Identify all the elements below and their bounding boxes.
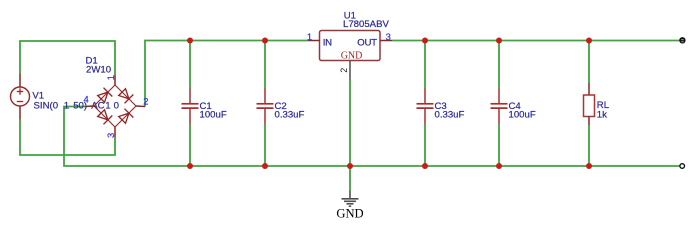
svg-text:SIN(0: SIN(0 [34, 101, 59, 112]
capacitor C4 [491, 88, 508, 125]
wire C1 top drop [189, 41, 191, 88]
capacitor C1 [182, 88, 199, 125]
pin 3 lead [114, 127, 116, 138]
wire bridge pin4 down to bottom rail [64, 107, 680, 167]
svg-text:4: 4 [84, 94, 89, 105]
pin 1 lead [308, 40, 320, 42]
wire V1 bottom to bridge pin3 [20, 120, 115, 156]
wire U1 pin2 down to bottom rail [349, 80, 351, 166]
wire C1 bottom drop [189, 125, 191, 167]
pin 2 lead [136, 105, 145, 108]
wire C4 bottom drop [498, 125, 500, 167]
ground symbol [342, 191, 359, 207]
svg-text:100uF: 100uF [509, 109, 536, 120]
svg-text:GND: GND [341, 51, 363, 62]
svg-text:2: 2 [143, 95, 148, 106]
diamond outline [94, 85, 136, 127]
wire C3 bottom drop [424, 125, 426, 167]
wire top rail right (U1 OUT to terminal) [392, 40, 680, 42]
svg-text:L7805ABV: L7805ABV [343, 19, 389, 30]
junction dot top RL [586, 38, 592, 44]
pin 2 lead (gray) [349, 61, 351, 81]
wire RL top drop [588, 41, 590, 83]
junction dot bottom C3 [422, 163, 428, 169]
svg-text:GND: GND [336, 207, 363, 221]
voltage source V1 [11, 74, 30, 120]
diode top-left [98, 92, 108, 102]
svg-text:0.33uF: 0.33uF [275, 109, 305, 120]
junction dot top C2 [262, 38, 268, 44]
junction dot top C1 [187, 38, 193, 44]
junction dot bottom GND [347, 163, 353, 169]
svg-text:1k: 1k [597, 109, 607, 120]
output terminal bottom (-) [680, 164, 685, 169]
junction dot top C4 [496, 38, 502, 44]
junction dot top C3 [422, 38, 428, 44]
pin 1 lead [114, 75, 116, 85]
regulator U1 [308, 31, 392, 61]
diode bottom-left [98, 110, 108, 120]
wire bridge pin2 up to top rail [145, 41, 308, 107]
wire top-left: V1 top to bridge pin1 [20, 41, 115, 75]
wire RL bottom drop [588, 125, 590, 166]
resistor RL [584, 83, 595, 125]
wire C4 top drop [498, 41, 500, 88]
wire C2 bottom drop [264, 125, 266, 167]
svg-text:3: 3 [105, 133, 116, 138]
svg-text:100uF: 100uF [200, 109, 227, 120]
svg-text:3: 3 [386, 31, 391, 42]
output terminal top (+) [679, 37, 685, 43]
junction dot bottom C1 [187, 163, 193, 169]
capacitor C2 [257, 88, 274, 125]
svg-text:2W10: 2W10 [86, 65, 111, 76]
svg-text:1: 1 [307, 31, 312, 42]
svg-text:1: 1 [105, 75, 116, 80]
junction dot bottom C4 [496, 163, 502, 169]
wire C3 top drop [424, 41, 426, 88]
wire C2 top drop [264, 41, 266, 88]
svg-text:0.33uF: 0.33uF [435, 109, 465, 120]
svg-text:2: 2 [339, 68, 349, 73]
svg-text:IN: IN [323, 38, 332, 49]
pin 4 lead [85, 105, 94, 108]
diode bottom-right [119, 113, 129, 123]
diode top-right [119, 89, 129, 99]
svg-text:1: 1 [105, 101, 110, 112]
junction dot bottom C2 [262, 163, 268, 169]
junction dot bottom RL [586, 163, 592, 169]
bridge rectifier D1 [85, 75, 145, 138]
pin 3 lead [380, 40, 392, 42]
svg-text:OUT: OUT [357, 38, 377, 49]
svg-text:1: 1 [64, 101, 69, 112]
capacitor C3 [417, 88, 434, 125]
wire GND drop [349, 166, 351, 191]
svg-text:0: 0 [114, 101, 119, 112]
